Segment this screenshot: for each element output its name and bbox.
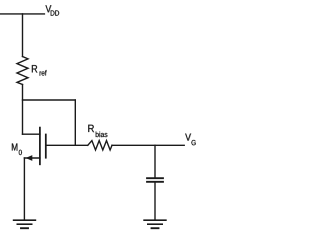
ground right (144, 220, 166, 228)
wire gate loop vertical (74, 100, 76, 145)
label Rref (32, 65, 47, 75)
node VDD label (46, 5, 60, 15)
node VG label (185, 134, 195, 146)
wire drain node to gate loop horizontal (23, 99, 76, 101)
resistor Rbias (88, 141, 112, 150)
wire drain lead (23, 133, 40, 135)
ground left (14, 220, 36, 228)
resistor Rref (17, 57, 28, 85)
wire VDD rail (0, 13, 44, 15)
wire Rref bottom to drain corner (22, 85, 24, 135)
wire gate lead (46, 144, 88, 146)
capacitor C1 (147, 178, 163, 182)
wire VG node to capacitor top (154, 145, 156, 177)
wire VDD to Rref top (22, 14, 24, 57)
label M0 (12, 143, 22, 155)
wire source to ground (23, 158, 25, 220)
transistor M0 (24, 128, 45, 165)
wire capacitor bottom to ground (154, 183, 156, 220)
wire Rbias to VG (112, 144, 184, 146)
label Rbias (88, 125, 107, 137)
